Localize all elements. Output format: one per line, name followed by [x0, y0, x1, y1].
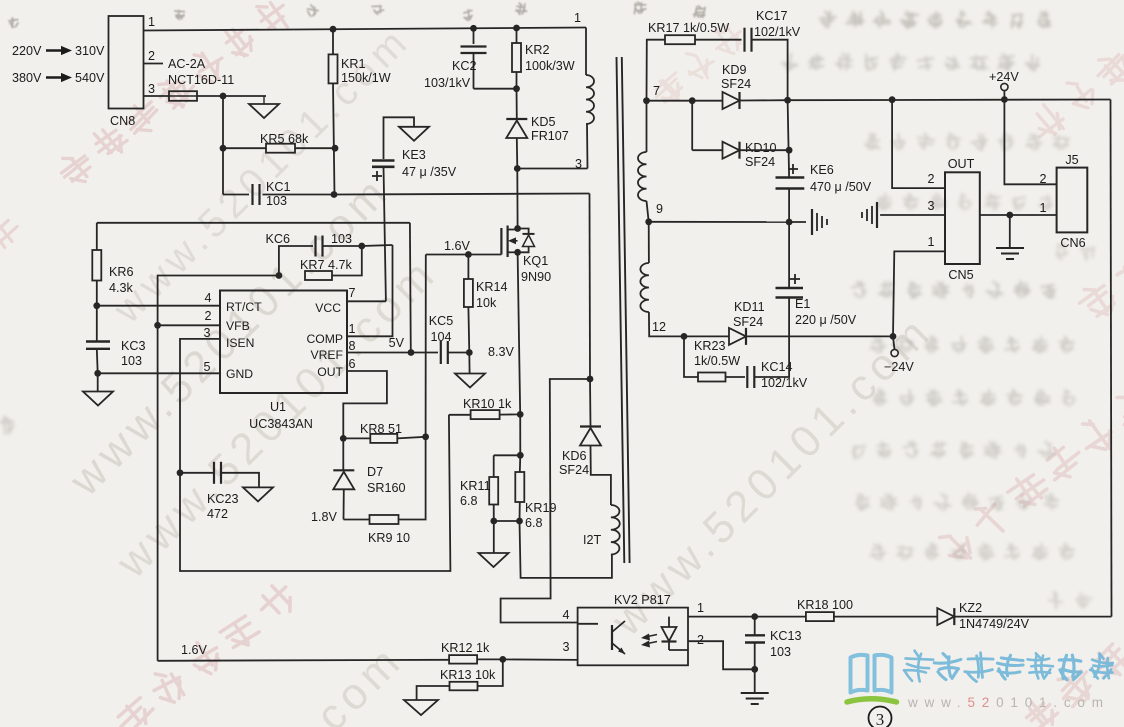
resistor KR10	[471, 410, 500, 419]
svg-text:KD11: KD11	[734, 300, 765, 314]
svg-text:1.6V: 1.6V	[444, 239, 471, 253]
node KR8 D7	[340, 435, 347, 442]
wire to +24V terminal	[1003, 91, 1005, 100]
svg-text:3: 3	[562, 640, 569, 654]
svg-text:1k/0.5W: 1k/0.5W	[694, 354, 740, 368]
svg-text:2: 2	[204, 309, 211, 323]
svg-text:103: 103	[331, 232, 352, 246]
terminal -24V	[891, 349, 898, 356]
svg-text:4: 4	[204, 291, 211, 305]
wire to KD5 cathode	[516, 89, 518, 119]
wire to ground	[97, 373, 99, 391]
wire KE6 top	[788, 100, 790, 176]
svg-text:220V: 220V	[12, 44, 42, 58]
svg-text:U1: U1	[270, 400, 286, 414]
svg-text:380V: 380V	[12, 71, 42, 85]
watermark www band tail bottom-center	[272, 634, 413, 727]
svg-text:KR2: KR2	[525, 43, 550, 57]
resistor KR23	[698, 373, 726, 382]
node +24V terminal	[1001, 96, 1008, 103]
node KQ1 drain	[514, 225, 521, 232]
wire pin7 up to KR17	[647, 40, 666, 101]
wire COMP riser pin 1	[347, 245, 393, 336]
node KR5 left	[220, 145, 227, 152]
svg-text:D7: D7	[367, 465, 383, 479]
transformer primary winding	[586, 75, 594, 124]
node 8.3V	[466, 349, 473, 356]
wire KD10 branch down	[691, 101, 693, 151]
node KD5 drain junction	[514, 165, 521, 172]
wire KD6 to I2T top	[591, 446, 611, 506]
wire KC14 up to rail	[754, 336, 789, 377]
wire KR1 top	[332, 29, 334, 54]
wire VREF pin 8	[347, 352, 411, 354]
capacitor KC17	[743, 28, 745, 52]
diode D7 SR160	[333, 469, 354, 471]
svg-text:−24V: −24V	[884, 360, 914, 374]
resistor KR5	[266, 144, 295, 153]
wire KD9 to +24 node	[740, 99, 788, 101]
wire to KD11	[684, 335, 729, 337]
node CN5 pin2 branch	[889, 96, 896, 103]
watermark www band bottom-left	[107, 247, 447, 587]
diode KD6 SF24	[580, 425, 601, 427]
transformer core	[617, 57, 625, 563]
capacitor KC13 103	[754, 617, 756, 635]
wire +24 to CN5 pin2	[892, 100, 945, 188]
node KR10 right	[517, 411, 524, 418]
earth ground output	[996, 247, 1024, 249]
node KC6 KR7 right	[358, 243, 365, 250]
svg-text:KR17 1k/0.5W: KR17 1k/0.5W	[648, 21, 729, 35]
wire branch to KR11	[494, 454, 521, 456]
wire secondary 0V rail	[649, 221, 789, 223]
watermark pink near KC17	[645, 18, 752, 113]
resistor KR14	[464, 279, 473, 307]
resistor KR18	[806, 612, 834, 621]
chassis ground secondary	[811, 209, 813, 235]
wire KR5 to KR1 line	[295, 147, 335, 149]
wire to KC3	[96, 306, 98, 341]
wire rail to KD6	[589, 379, 592, 427]
capacitor KC3 103	[86, 340, 110, 342]
wire to KR5	[223, 147, 266, 149]
wire to KD10	[692, 149, 722, 151]
svg-text:CN8: CN8	[110, 114, 135, 128]
diode KD11 SF24	[729, 328, 746, 345]
svg-text:E1: E1	[795, 297, 810, 311]
wire KR11 top	[493, 455, 495, 477]
fuse AC-2A NCT16D-11	[169, 91, 197, 101]
node KD9 out	[784, 97, 791, 104]
wire E1 bottom	[788, 298, 790, 337]
capacitor KC6	[314, 236, 316, 257]
node pin12 KD11	[681, 333, 688, 340]
node KD6 top	[587, 376, 594, 383]
svg-text:10k: 10k	[476, 296, 497, 310]
svg-text:KC2: KC2	[452, 59, 477, 73]
wire KV2 pin2 to ground node	[688, 641, 755, 669]
svg-text:KE6: KE6	[810, 163, 834, 177]
svg-text:8.3V: 8.3V	[488, 345, 515, 359]
svg-text:SF24: SF24	[733, 315, 763, 329]
svg-text:100k/3W: 100k/3W	[525, 59, 575, 73]
ground KC3	[83, 392, 113, 406]
watermark pink top-right corner	[1022, 40, 1124, 146]
wire KC2 to KR2 node	[474, 88, 517, 90]
watermark pink band bottom-left	[105, 576, 302, 727]
node pin 9	[645, 218, 652, 225]
node top bus KC2	[470, 25, 477, 32]
logo book icon	[851, 655, 892, 693]
svg-text:KR14: KR14	[476, 280, 508, 294]
wire GND pin 5	[98, 372, 220, 374]
svg-text:150k/1W: 150k/1W	[341, 71, 391, 85]
node top bus KR2	[513, 25, 520, 32]
node KR11 KR19 top	[517, 452, 524, 459]
svg-text:9: 9	[656, 202, 663, 216]
svg-text:102/1kV: 102/1kV	[754, 25, 801, 39]
svg-text:103: 103	[770, 645, 791, 659]
ground source network	[479, 553, 509, 567]
wire primary top	[585, 28, 587, 76]
node KR8 right 1.6V riser	[422, 433, 429, 440]
wire KR1 bottom	[333, 83, 335, 194]
node KC13 top	[751, 613, 758, 620]
svg-text:1: 1	[1039, 201, 1046, 215]
resistor KR13	[450, 682, 478, 691]
earth ground KC13	[741, 692, 769, 694]
svg-text:KC5: KC5	[429, 314, 454, 328]
node KR12 KR13	[499, 656, 506, 663]
bleed-through text rows	[0, 11, 1094, 608]
svg-text:220 μ /50V: 220 μ /50V	[795, 313, 857, 327]
wire rail KC1 to right	[334, 194, 590, 195]
transistor KQ1 9N90 MOSFET	[500, 228, 502, 255]
watermark www band top-left	[105, 18, 419, 332]
node GND row	[94, 370, 101, 377]
watermark www band right	[602, 305, 942, 645]
wire to KR11 branch node	[519, 414, 521, 455]
svg-text:FR107: FR107	[531, 129, 569, 143]
svg-text:103: 103	[266, 194, 287, 208]
node KD10 branch	[689, 97, 696, 104]
capacitor KC1	[251, 184, 253, 205]
wire KC17 down to KD9 cathode node	[751, 40, 787, 100]
svg-text:RT/CT: RT/CT	[226, 300, 262, 314]
ground KC23	[243, 487, 273, 501]
svg-text:472: 472	[207, 507, 228, 521]
node KC23	[177, 469, 184, 476]
svg-text:3: 3	[927, 199, 934, 213]
node KD10 out	[786, 147, 793, 154]
node VFB	[154, 322, 161, 329]
svg-text:KD10: KD10	[745, 141, 777, 155]
svg-text:8: 8	[348, 339, 355, 353]
node KR11 bottom	[490, 518, 497, 525]
resistor KR8	[370, 434, 397, 443]
resistor KR11	[489, 477, 498, 505]
wire CN8 pin1 to primary top	[144, 28, 587, 31]
zener KZ2 1N4749/24V	[937, 608, 954, 625]
wire node to COMP riser	[362, 245, 393, 246]
wire KR23 to KC14	[726, 376, 746, 378]
wire KR10 right	[500, 413, 521, 415]
wire node to ground arm	[223, 95, 266, 97]
svg-text:NCT16D-11: NCT16D-11	[168, 73, 234, 87]
wire winding to pin9 node	[647, 201, 649, 222]
node KQ1 source	[514, 249, 521, 256]
svg-text:SR160: SR160	[367, 481, 406, 495]
node KR5 right on KR1 line	[332, 145, 339, 152]
svg-text:KC17: KC17	[756, 9, 788, 23]
wire KR11 bottom	[493, 505, 495, 522]
svg-text:J5: J5	[1065, 153, 1078, 167]
ground	[249, 104, 279, 118]
plus KE3	[372, 175, 382, 177]
node KE6 gnd rail	[786, 219, 793, 226]
svg-text:KR9 10: KR9 10	[368, 531, 410, 545]
regulator OUT CN5 box	[945, 172, 980, 264]
svg-text:3: 3	[148, 82, 155, 96]
wire KR14 top	[467, 255, 469, 280]
wire RT/CT pin 4	[97, 305, 220, 307]
wire KQ1 body diode bottom	[518, 247, 529, 253]
svg-text:KR11: KR11	[460, 479, 491, 493]
node KR6 RTCT	[93, 302, 100, 309]
wire KZ2 to right edge riser	[954, 616, 1111, 618]
svg-text:ISEN: ISEN	[226, 336, 254, 350]
svg-text:1: 1	[148, 15, 155, 29]
wire KR8 right	[397, 437, 425, 439]
watermark pink band top-left	[53, 0, 296, 193]
svg-text:6: 6	[348, 357, 355, 371]
svg-text:540V: 540V	[75, 71, 105, 85]
wire pin9 to winding2	[648, 222, 650, 263]
svg-text:KR6: KR6	[109, 265, 134, 279]
wire KR2 bottom	[516, 72, 518, 89]
wire KR13 to ground	[417, 686, 450, 700]
svg-text:OUT: OUT	[317, 365, 343, 379]
wire 5V rail	[97, 222, 410, 224]
arrow 380V	[46, 76, 64, 79]
resistor KR12	[449, 655, 477, 664]
node KR19 bottom	[516, 518, 523, 525]
diode KD10 SF24	[723, 142, 740, 159]
ground KC5	[455, 374, 485, 388]
svg-text:1.8V: 1.8V	[311, 510, 338, 524]
wire KC6 left	[279, 246, 313, 276]
wire KR18 to KZ2	[834, 616, 937, 618]
circled 3 page number	[869, 707, 892, 727]
arrow 220V	[46, 49, 64, 52]
svg-text:GND: GND	[226, 367, 253, 381]
svg-text:104: 104	[430, 330, 451, 344]
wire KC6 right	[322, 245, 362, 247]
capacitor KC14	[746, 366, 748, 388]
svg-text:KD9: KD9	[722, 63, 747, 77]
svg-text:www.520101.com: www.520101.com	[907, 695, 1110, 710]
watermark pink left edge	[0, 216, 23, 252]
wire E1 top	[788, 222, 790, 288]
svg-text:47 μ /35V: 47 μ /35V	[402, 165, 457, 179]
svg-text:2: 2	[927, 172, 934, 186]
svg-text:310V: 310V	[75, 44, 105, 58]
wire KC2 top	[473, 28, 475, 44]
wire KD6 node to optocoupler pin 4	[501, 379, 590, 623]
wire 1.6V gate line	[426, 254, 502, 256]
wire KE3 top to ground	[384, 117, 415, 159]
wire KR2 top	[516, 28, 518, 43]
svg-text:CN5: CN5	[948, 268, 973, 282]
wire node down to KR13	[477, 659, 502, 686]
svg-text:UC3843AN: UC3843AN	[249, 417, 313, 431]
wire KR19 top	[519, 455, 522, 472]
wire bottom 1.6V rail	[158, 660, 450, 661]
node output ground branch	[1006, 212, 1013, 219]
svg-text:4: 4	[562, 608, 569, 622]
plus E1	[790, 278, 800, 280]
node KC13 bottom	[751, 666, 758, 673]
wire KR17 to KC17	[695, 39, 742, 41]
svg-text:KR7 4.7k: KR7 4.7k	[300, 258, 353, 272]
svg-text:KR18 100: KR18 100	[797, 598, 853, 612]
wire KR19 bottom	[519, 502, 521, 521]
svg-text:VCC: VCC	[315, 301, 341, 315]
wire node to J5 pin1	[1010, 214, 1057, 216]
watermark pink band right	[932, 381, 1124, 572]
resistor KR1	[329, 54, 338, 83]
svg-text:5: 5	[203, 360, 210, 374]
svg-text:KR23: KR23	[694, 339, 726, 353]
svg-text:3: 3	[876, 710, 885, 727]
svg-text:VREF: VREF	[310, 348, 343, 362]
wire fuse to node	[197, 95, 223, 97]
svg-text:SF24: SF24	[559, 463, 589, 477]
svg-text:7: 7	[348, 286, 355, 300]
wire to KC5	[411, 352, 438, 354]
node KR7 left	[276, 272, 283, 279]
svg-text:KE3: KE3	[402, 148, 426, 162]
wire CN5 out to node	[980, 214, 1010, 216]
wire KC23 to ground	[221, 473, 259, 488]
capacitor KC23	[213, 462, 215, 484]
svg-text:KC23: KC23	[207, 492, 239, 506]
node -24V	[890, 333, 897, 340]
wire node down to KR5 row	[222, 96, 224, 148]
svg-text:1N4749/24V: 1N4749/24V	[959, 617, 1030, 631]
terminal +24V	[1001, 83, 1008, 90]
wire node to primary pin3	[517, 168, 587, 170]
wire to KR18	[755, 616, 806, 618]
svg-text:103: 103	[121, 354, 142, 368]
IC U1 UC3843AN box	[220, 291, 347, 394]
svg-text:470 μ /50V: 470 μ /50V	[810, 180, 872, 194]
transformer secondary winding 9-12	[640, 263, 649, 312]
ground KE3	[399, 127, 429, 141]
wire +24V to J5 pin2	[1004, 100, 1056, 185]
watermark pink right edge mid	[1073, 244, 1124, 326]
svg-text:KR1: KR1	[341, 57, 366, 71]
node top bus KR1	[330, 26, 337, 33]
wire CN8 pin2 stub	[144, 63, 164, 65]
transformer aux winding I2T	[611, 505, 620, 555]
svg-text:+24V: +24V	[989, 70, 1019, 84]
wire ISEN pin3 riser to KR10	[180, 339, 450, 571]
svg-text:1: 1	[927, 235, 934, 249]
wire KR7 left to VFB riser down to bottom rail	[158, 276, 279, 661]
wire to KC1	[223, 194, 249, 196]
watermark www band left-mid	[60, 165, 400, 505]
wire down to KC1 row	[222, 148, 224, 194]
wire KR19 to I2T return	[520, 521, 612, 578]
wire VFB pin 2	[158, 324, 220, 326]
svg-text:KD6: KD6	[562, 449, 587, 463]
wire KE6 bottom	[788, 189, 790, 223]
wire KC5 to 8.3V node	[448, 352, 470, 354]
svg-text:KC13: KC13	[770, 629, 802, 643]
svg-text:KC1: KC1	[266, 180, 291, 194]
wire VCC pin stub	[347, 300, 386, 302]
svg-text:12: 12	[652, 320, 666, 334]
wire CN5 pin1 to -24V rail	[893, 251, 945, 336]
node 5V	[408, 349, 415, 356]
wire KD10 to KE6 riser	[740, 149, 790, 151]
svg-text:I2T: I2T	[583, 533, 602, 547]
resistor KR19	[515, 472, 524, 502]
wire KR6 top	[96, 223, 98, 250]
svg-text:OUT: OUT	[948, 157, 975, 171]
wire rail to chassis ground	[789, 221, 806, 223]
wire KR12 to node	[477, 658, 503, 660]
wire KQ1 body diode top	[518, 229, 529, 235]
connector CN8 box	[109, 16, 144, 109]
wire to D7	[342, 438, 344, 470]
svg-text:CN6: CN6	[1060, 236, 1085, 250]
svg-text:SF24: SF24	[745, 155, 775, 169]
resistor KR9	[370, 515, 399, 524]
svg-text:KC6: KC6	[266, 232, 291, 246]
wire KC2 bottom	[473, 53, 475, 89]
connector J5 CN6 box	[1057, 168, 1088, 233]
svg-text:103/1kV: 103/1kV	[424, 76, 471, 90]
svg-text:KC14: KC14	[761, 360, 793, 374]
wire to ground KR11	[493, 521, 495, 553]
svg-text:KR19: KR19	[525, 501, 557, 515]
svg-text:7: 7	[653, 84, 660, 98]
diode KD5 FR107	[506, 118, 527, 120]
wire KC3 to gnd node	[96, 349, 99, 374]
svg-text:KZ2: KZ2	[959, 601, 982, 615]
capacitor KC2	[461, 45, 487, 47]
wire node down to drain	[516, 169, 518, 229]
diode KD9 SF24	[723, 92, 740, 109]
resistor KR6	[92, 250, 101, 281]
svg-text:KR10 1k: KR10 1k	[463, 397, 512, 411]
wire winding to pin 12	[649, 312, 684, 336]
capacitor KC5	[440, 341, 442, 364]
wire KC1 to node	[263, 194, 335, 196]
wire node to opto pin 3	[503, 658, 578, 661]
wire KD11 to -24V node	[746, 335, 893, 337]
ground KR13	[404, 700, 438, 715]
logo text 家电维修资料网	[903, 650, 1114, 683]
chassis ground CN5 pin3	[876, 202, 878, 228]
svg-text:2: 2	[697, 633, 704, 647]
resistor KR2	[512, 43, 521, 72]
wire node down to earth	[1009, 215, 1011, 247]
wire KR6 bottom	[96, 281, 98, 306]
